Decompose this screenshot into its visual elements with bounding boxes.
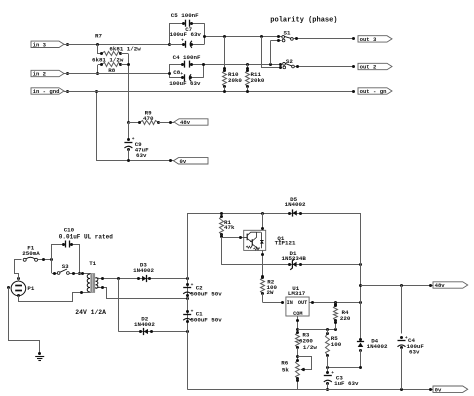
svg-text:1uF 63v: 1uF 63v (334, 380, 359, 387)
svg-text:+: + (331, 371, 334, 376)
svg-text:+: + (191, 283, 194, 288)
svg-text:IN: IN (287, 300, 293, 306)
svg-text:C8: C8 (173, 69, 180, 76)
svg-text:100uF 63v: 100uF 63v (170, 31, 202, 38)
svg-text:0v: 0v (435, 386, 442, 393)
svg-text:in 2: in 2 (33, 71, 47, 78)
svg-text:out 3: out 3 (360, 36, 377, 43)
svg-text:1N4002: 1N4002 (285, 201, 306, 208)
svg-text:48v: 48v (435, 282, 446, 289)
svg-text:6k81 1/2w: 6k81 1/2w (109, 46, 141, 53)
svg-text:S2: S2 (286, 58, 293, 65)
svg-text:in 3: in 3 (33, 41, 47, 48)
svg-text:1N4002: 1N4002 (367, 343, 388, 350)
svg-text:C4 100nF: C4 100nF (173, 54, 201, 61)
svg-text:+: + (180, 72, 183, 77)
svg-text:500uF 50v: 500uF 50v (190, 317, 222, 324)
svg-text:LM317: LM317 (288, 290, 306, 297)
svg-text:P1: P1 (27, 285, 34, 292)
svg-text:0.01uF UL rated: 0.01uF UL rated (59, 233, 113, 240)
svg-text:470: 470 (143, 115, 154, 122)
svg-text:48v: 48v (180, 119, 191, 126)
svg-text:R8: R8 (108, 67, 115, 74)
svg-text:out 2: out 2 (360, 64, 377, 71)
svg-text:1N4002: 1N4002 (133, 267, 154, 274)
svg-text:1N5234B: 1N5234B (282, 255, 307, 262)
svg-text:+: + (181, 39, 184, 44)
svg-text:24V 1/2A: 24V 1/2A (75, 309, 106, 316)
svg-text:0v: 0v (180, 158, 187, 165)
svg-text:20k0: 20k0 (251, 77, 265, 84)
svg-text:100: 100 (331, 341, 342, 348)
svg-text:polarity (phase): polarity (phase) (270, 17, 337, 25)
svg-text:C5 100nF: C5 100nF (171, 12, 199, 19)
svg-text:220: 220 (340, 315, 351, 322)
svg-text:63v: 63v (409, 349, 420, 356)
svg-text:63v: 63v (136, 152, 147, 159)
svg-text:T1: T1 (89, 260, 96, 267)
svg-text:2W: 2W (267, 289, 274, 296)
svg-text:out - gn: out - gn (360, 88, 387, 95)
svg-text:OUT: OUT (298, 300, 307, 306)
svg-text:1N4002: 1N4002 (134, 321, 155, 328)
svg-text:in - gnd: in - gnd (33, 88, 60, 95)
svg-text:1/2w: 1/2w (303, 344, 317, 351)
svg-text:5k: 5k (282, 367, 289, 374)
svg-text:250mA: 250mA (22, 250, 40, 257)
svg-text:100uF 63v: 100uF 63v (169, 80, 201, 87)
svg-text:+: + (191, 309, 194, 314)
svg-text:500uF 50v: 500uF 50v (190, 290, 222, 297)
svg-text:C10: C10 (64, 226, 75, 233)
svg-text:TIP121: TIP121 (275, 240, 296, 247)
svg-text:20k0: 20k0 (228, 77, 242, 84)
svg-text:S3: S3 (62, 263, 69, 270)
svg-text:COM: COM (293, 311, 302, 317)
svg-text:6k81 1/2w: 6k81 1/2w (92, 56, 124, 63)
svg-text:R6: R6 (281, 359, 288, 366)
svg-text:47k: 47k (224, 224, 235, 231)
svg-text:R7: R7 (95, 32, 102, 39)
svg-text:S1: S1 (284, 30, 291, 37)
